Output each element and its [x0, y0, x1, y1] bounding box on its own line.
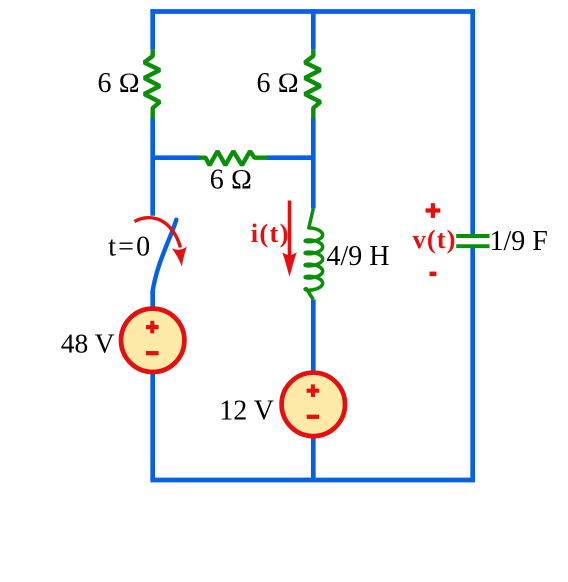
- svg-text:12 V: 12 V: [219, 396, 274, 427]
- source V1 plus sign: [146, 321, 159, 334]
- wire middle branch lower: [311, 300, 316, 481]
- svg-text:v(t): v(t): [412, 224, 456, 254]
- switch arc arrowhead: [172, 247, 187, 267]
- source V1 minus sign: [146, 351, 159, 355]
- wire middle horizontal: [153, 155, 314, 160]
- svg-text:1/9 F: 1/9 F: [490, 226, 548, 257]
- inductor L1 coil: [305, 209, 323, 300]
- svg-text:6 Ω: 6 Ω: [210, 165, 253, 196]
- capacitor C1 top plate: [456, 234, 489, 238]
- svg-text:48 V: 48 V: [61, 328, 115, 359]
- svg-text:i(t): i(t): [251, 218, 290, 248]
- wire left branch upper: [150, 9, 155, 216]
- switch action arc red: [135, 218, 181, 248]
- wire middle branch upper: [311, 9, 316, 208]
- source V2 plus sign: [307, 384, 320, 397]
- capacitor voltage minus: [430, 272, 437, 277]
- current arrow i(t): [288, 201, 292, 260]
- source V2 12V circle: [282, 373, 345, 436]
- resistor R2 6ohm middle vertical: [305, 49, 321, 118]
- wire top rail: [150, 9, 475, 14]
- capacitor C1 bottom plate: [456, 244, 489, 248]
- svg-text:4/9 H: 4/9 H: [327, 241, 390, 272]
- source V1 48V circle: [121, 309, 184, 372]
- wire left branch lower: [150, 291, 155, 480]
- capacitor voltage plus: [426, 203, 441, 218]
- wire right branch: [470, 9, 475, 480]
- svg-text:6 Ω: 6 Ω: [256, 68, 299, 99]
- resistor R3 6ohm horizontal: [199, 151, 268, 165]
- svg-text:6 Ω: 6 Ω: [97, 68, 140, 99]
- wire bottom rail: [150, 478, 475, 483]
- resistor R1 6ohm left vertical: [144, 49, 160, 118]
- current arrowhead: [282, 252, 297, 276]
- source V2 minus sign: [307, 415, 319, 419]
- svg-text:t=0: t=0: [108, 231, 152, 262]
- switch blade: [153, 220, 177, 292]
